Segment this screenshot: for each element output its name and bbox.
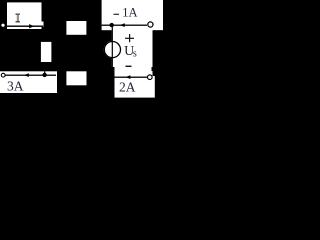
wire (stub up from bottom junction) <box>44 71 45 75</box>
svg-text:2A: 2A <box>119 79 136 94</box>
label plus (above Us) <box>125 38 134 39</box>
capacitor C placeholder (blank element box M2) <box>41 42 52 62</box>
svg-text:s: s <box>133 48 137 59</box>
terminal (open circle, top right) <box>148 22 153 27</box>
svg-text:1A: 1A <box>122 5 137 19</box>
wire (black backdrop notch above node C right corner) <box>153 30 164 76</box>
label minus (top, left of 1A) <box>114 14 120 15</box>
node C (bottom-right white panel) <box>115 71 155 98</box>
wire (source column white band) <box>112 30 153 67</box>
voltage source U1 white bulge <box>104 41 121 58</box>
terminal (open circle, bottom right) <box>148 75 153 80</box>
current label I (ClearType colored glyph) <box>16 14 20 15</box>
arrow on wire B (pointing left) <box>120 23 125 27</box>
node B (top-right white panel) <box>102 0 163 30</box>
arrow on wire C (pointing left) <box>126 75 131 79</box>
inductor L placeholder (blank element box M3) <box>66 71 86 85</box>
terminal (open circle, bottom left) <box>1 73 5 77</box>
resistor R1 placeholder (blank element box M1) <box>66 21 86 35</box>
voltage source U1 circle <box>104 42 120 58</box>
node A (top-left white panel) <box>7 2 42 29</box>
label minus (below Us) <box>126 66 132 67</box>
wire (panel D horizontal wire) <box>6 75 57 76</box>
wire (panel B horizontal wire) <box>102 25 147 26</box>
node junction dot (bottom node) <box>42 73 46 77</box>
wire (notch right of panel A) <box>42 22 44 28</box>
wire (panel A horizontal wire) <box>7 26 43 27</box>
svg-text:3A: 3A <box>7 79 24 94</box>
arrow on wire A (current direction right) <box>29 24 34 28</box>
node terminal a (white dot left of panel A) <box>1 24 4 27</box>
arrow on wire D (pointing left) <box>24 73 29 77</box>
node D (bottom-left white panel) <box>0 71 57 93</box>
node junction dot (top node) <box>110 23 114 27</box>
wire (vertical through voltage source) <box>112 25 113 67</box>
wire (panel C horizontal wire) <box>115 77 148 78</box>
